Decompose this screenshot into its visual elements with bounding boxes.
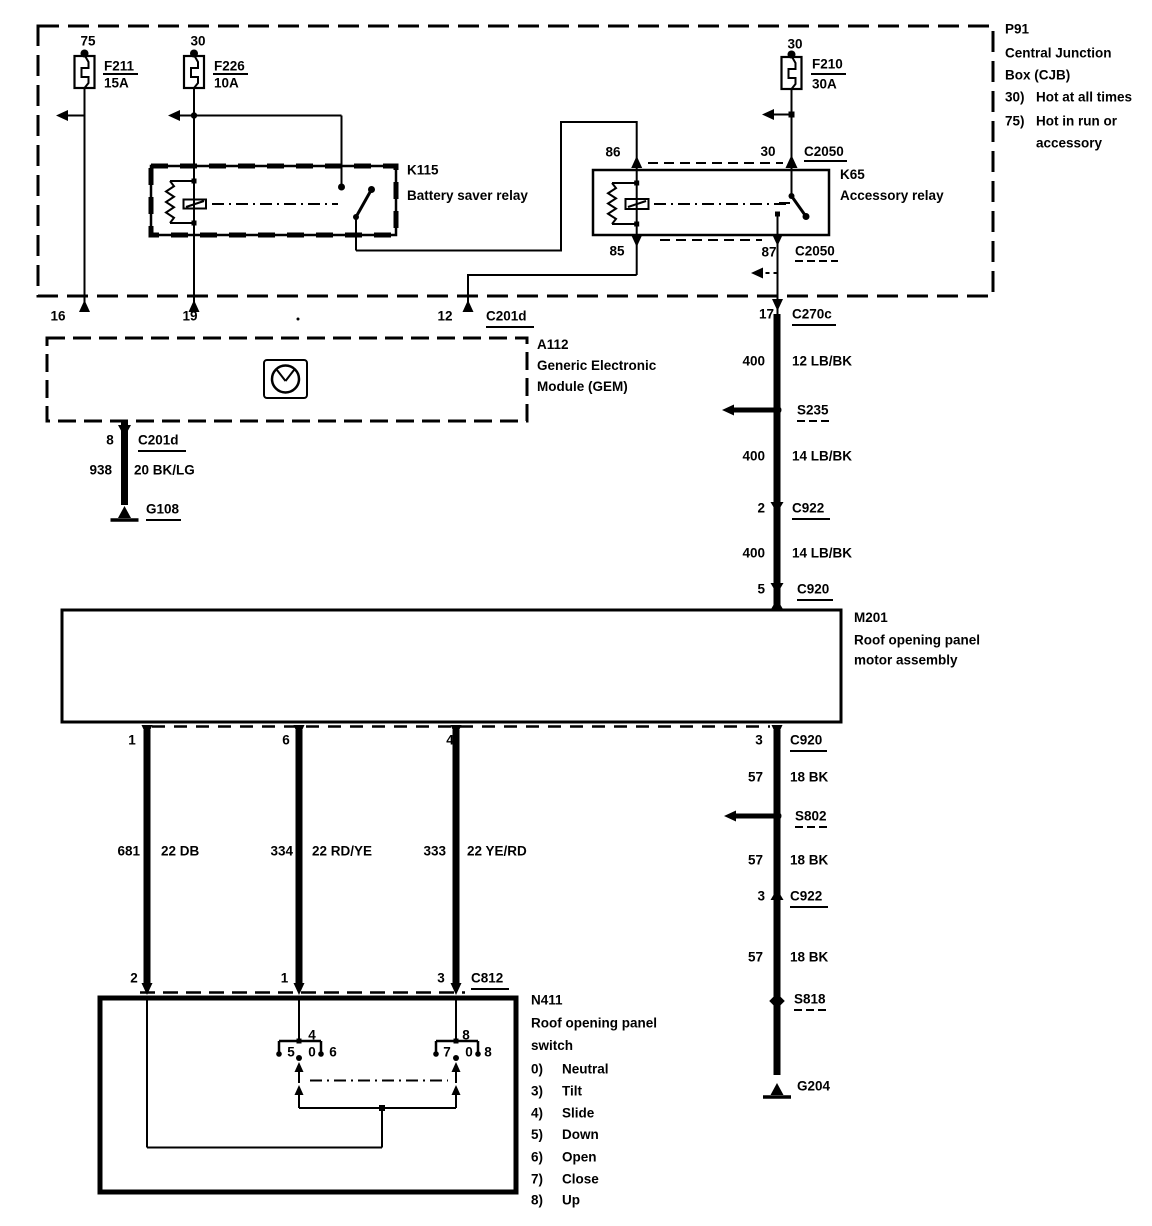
svg-text:19: 19 [182, 309, 197, 324]
svg-text:30: 30 [787, 37, 802, 52]
svg-text:22 YE/RD: 22 YE/RD [467, 844, 527, 859]
svg-text:Module (GEM): Module (GEM) [537, 379, 628, 394]
svg-text:5: 5 [757, 582, 765, 597]
svg-text:3: 3 [437, 971, 445, 986]
svg-text:Box (CJB): Box (CJB) [1005, 68, 1070, 83]
svg-text:Generic Electronic: Generic Electronic [537, 358, 657, 373]
svg-text:G108: G108 [146, 502, 180, 517]
svg-text:K115: K115 [407, 163, 439, 178]
svg-text:M201: M201 [854, 610, 888, 625]
svg-text:A112: A112 [537, 337, 569, 352]
svg-text:S802: S802 [795, 809, 827, 824]
svg-text:C922: C922 [790, 889, 822, 904]
svg-text:30A: 30A [812, 77, 837, 92]
svg-text:C920: C920 [790, 733, 822, 748]
svg-text:Roof opening panel: Roof opening panel [854, 633, 980, 648]
svg-text:accessory: accessory [1036, 136, 1103, 151]
svg-text:2: 2 [757, 501, 765, 516]
svg-text:14 LB/BK: 14 LB/BK [792, 546, 852, 561]
svg-text:Battery saver relay: Battery saver relay [407, 188, 528, 203]
svg-text:86: 86 [605, 145, 621, 160]
svg-text:400: 400 [742, 354, 765, 369]
svg-text:0): 0) [531, 1062, 543, 1077]
svg-text:S235: S235 [797, 403, 829, 418]
svg-text:C922: C922 [792, 501, 824, 516]
svg-text:333: 333 [423, 844, 446, 859]
svg-text:C2050: C2050 [804, 144, 844, 159]
svg-text:C201d: C201d [486, 309, 527, 324]
svg-text:Up: Up [562, 1193, 580, 1208]
svg-text:57: 57 [748, 950, 763, 965]
svg-text:22 RD/YE: 22 RD/YE [312, 844, 372, 859]
svg-text:Down: Down [562, 1127, 599, 1142]
svg-text:18 BK: 18 BK [790, 770, 829, 785]
svg-text:Central Junction: Central Junction [1005, 46, 1112, 61]
svg-text:12: 12 [437, 309, 452, 324]
svg-text:C2050: C2050 [795, 244, 835, 259]
svg-text:2: 2 [130, 971, 138, 986]
svg-text:10A: 10A [214, 76, 239, 91]
svg-text:16: 16 [50, 309, 66, 324]
svg-text:Tilt: Tilt [562, 1084, 583, 1099]
svg-text:3): 3) [531, 1084, 543, 1099]
svg-text:938: 938 [89, 463, 112, 478]
svg-text:P91: P91 [1005, 22, 1030, 37]
svg-text:85: 85 [609, 244, 625, 259]
svg-text:22 DB: 22 DB [161, 844, 200, 859]
svg-text:5: 5 [287, 1045, 295, 1060]
svg-text:switch: switch [531, 1038, 573, 1053]
svg-text:Accessory relay: Accessory relay [840, 188, 944, 203]
svg-text:4: 4 [308, 1028, 316, 1043]
svg-text:6: 6 [329, 1045, 337, 1060]
svg-text:F226: F226 [214, 59, 245, 74]
svg-text:12 LB/BK: 12 LB/BK [792, 354, 852, 369]
svg-text:6): 6) [531, 1150, 543, 1165]
svg-text:3: 3 [757, 889, 765, 904]
svg-text:15A: 15A [104, 76, 129, 91]
svg-text:Hot in run or: Hot in run or [1036, 114, 1118, 129]
svg-text:motor assembly: motor assembly [854, 653, 958, 668]
svg-text:681: 681 [117, 844, 140, 859]
svg-text:6: 6 [282, 733, 290, 748]
svg-text:C920: C920 [797, 582, 829, 597]
svg-text:17: 17 [759, 307, 774, 322]
svg-text:S818: S818 [794, 992, 826, 1007]
svg-text:Close: Close [562, 1172, 599, 1187]
svg-text:75: 75 [80, 34, 96, 49]
svg-text:0: 0 [308, 1045, 316, 1060]
svg-text:8: 8 [462, 1028, 470, 1043]
svg-text:1: 1 [281, 971, 289, 986]
svg-text:20 BK/LG: 20 BK/LG [134, 463, 195, 478]
svg-text:N411: N411 [531, 993, 563, 1008]
svg-text:18 BK: 18 BK [790, 950, 829, 965]
svg-text:0: 0 [465, 1045, 473, 1060]
svg-text:30: 30 [190, 34, 205, 49]
svg-text:3: 3 [755, 733, 763, 748]
svg-text:87: 87 [761, 245, 776, 260]
svg-text:8): 8) [531, 1193, 543, 1208]
svg-text:1: 1 [128, 733, 136, 748]
svg-text:7): 7) [531, 1172, 543, 1187]
svg-text:C201d: C201d [138, 433, 179, 448]
svg-text:8: 8 [106, 433, 114, 448]
svg-text:Hot at all times: Hot at all times [1036, 90, 1132, 105]
svg-text:4): 4) [531, 1106, 543, 1121]
svg-text:C812: C812 [471, 971, 503, 986]
svg-text:75): 75) [1005, 114, 1025, 129]
svg-text:57: 57 [748, 770, 763, 785]
svg-text:8: 8 [484, 1045, 492, 1060]
svg-text:F210: F210 [812, 57, 843, 72]
svg-text:F211: F211 [104, 59, 135, 74]
svg-text:14 LB/BK: 14 LB/BK [792, 449, 852, 464]
svg-text:C270c: C270c [792, 307, 832, 322]
svg-text:400: 400 [742, 546, 765, 561]
svg-text:334: 334 [270, 844, 293, 859]
svg-text:5): 5) [531, 1127, 543, 1142]
svg-text:G204: G204 [797, 1079, 831, 1094]
svg-text:K65: K65 [840, 167, 865, 182]
svg-text:Slide: Slide [562, 1106, 595, 1121]
svg-text:18 BK: 18 BK [790, 853, 829, 868]
svg-text:7: 7 [443, 1045, 451, 1060]
svg-text:57: 57 [748, 853, 763, 868]
svg-text:Open: Open [562, 1150, 597, 1165]
svg-text:30: 30 [760, 144, 775, 159]
svg-text:Neutral: Neutral [562, 1062, 609, 1077]
svg-text:30): 30) [1005, 90, 1025, 105]
svg-text:Roof opening panel: Roof opening panel [531, 1016, 657, 1031]
svg-text:400: 400 [742, 449, 765, 464]
